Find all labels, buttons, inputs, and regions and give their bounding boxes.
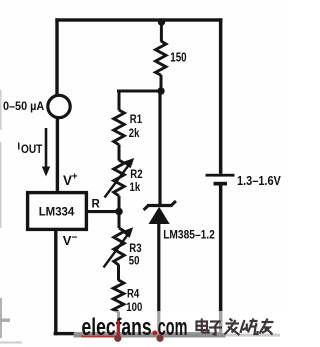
svg-text:50: 50 — [129, 255, 140, 268]
arrow of pot R3 — [104, 227, 134, 267]
svg-text:0–50 µA: 0–50 µA — [3, 101, 45, 114]
wire right vertical lower (battery to bottom) — [219, 186, 223, 335]
watermark node dot left — [114, 335, 121, 342]
wire top horizontal — [55, 18, 222, 21]
label V+ pin — [63, 171, 78, 188]
node dot top junction — [158, 18, 165, 25]
wire 150 bottom lead — [160, 75, 163, 91]
wire right vertical upper (top to battery) — [219, 18, 223, 174]
watermark chinese characters — [197, 319, 274, 336]
zener diode D1 LM385-1.2 — [144, 201, 176, 224]
battery BT1 short plate — [214, 182, 228, 186]
svg-text:R4: R4 — [127, 288, 139, 301]
wire R2 to node — [118, 196, 121, 212]
svg-text:1.3–1.6V: 1.3–1.6V — [237, 173, 281, 188]
label IOUT — [17, 141, 42, 156]
wire R1-R2 lead — [118, 145, 121, 161]
resistor R1 zigzag — [114, 110, 125, 145]
wire R1 top lead — [118, 90, 121, 111]
svg-text:2k: 2k — [129, 127, 141, 140]
wire left lower vertical (LM334 to bottom) — [54, 229, 57, 335]
wire R3-R4 lead — [117, 265, 120, 281]
wire node to R3 — [118, 212, 121, 229]
svg-text:OUT: OUT — [21, 144, 43, 157]
resistor 150 zigzag — [156, 41, 167, 75]
watermark node dot right — [156, 335, 163, 342]
arrow Iout downward — [42, 128, 50, 177]
resistor R3 zigzag (pot) — [114, 228, 125, 265]
svg-text:V: V — [63, 173, 72, 188]
svg-text:+: + — [72, 171, 78, 182]
wire R4 to bottom — [117, 312, 120, 335]
wire horizontal to R1 branch — [117, 90, 161, 93]
wire zener branch upper — [158, 91, 161, 205]
node dot R junction — [115, 208, 123, 216]
svg-text:I: I — [17, 141, 20, 152]
ammeter M1 0-50uA — [48, 95, 70, 117]
watermark translucent band — [74, 311, 286, 347]
watermark elecfans text — [81, 315, 152, 341]
label V- pin — [63, 232, 78, 248]
svg-text:LM334: LM334 — [39, 204, 75, 218]
svg-text:V: V — [63, 233, 72, 248]
svg-text:−: − — [72, 232, 78, 243]
wire R pin horizontal — [87, 210, 119, 213]
svg-text:R2: R2 — [130, 168, 142, 181]
svg-text:R: R — [92, 199, 101, 211]
wire bottom horizontal — [54, 332, 223, 335]
wire zener branch lower — [157, 224, 160, 335]
svg-text:R1: R1 — [130, 113, 142, 126]
svg-text:1k: 1k — [130, 181, 142, 194]
resistor R2 zigzag (pot) — [114, 160, 125, 196]
battery BT1 long plate — [206, 174, 235, 177]
watermark grey bar — [74, 333, 281, 337]
svg-text:R3: R3 — [129, 242, 141, 255]
wire 150 top lead — [160, 22, 163, 42]
arrow of pot R2 — [105, 158, 135, 198]
watermark com text — [153, 315, 188, 342]
op-amp U1 LM334 box — [28, 193, 87, 230]
scan edge artifacts — [0, 90, 22, 344]
node dot mid junction — [157, 87, 164, 94]
resistor R4 zigzag — [113, 280, 124, 312]
wire left mid vertical (meter to LM334) — [56, 117, 59, 191]
wire left upper vertical — [55, 18, 58, 95]
svg-text:LM385–1.2: LM385–1.2 — [163, 229, 215, 242]
svg-text:150: 150 — [170, 51, 186, 65]
